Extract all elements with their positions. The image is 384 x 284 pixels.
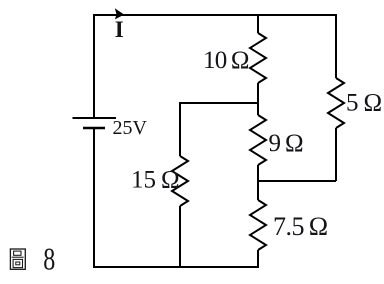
- wire left vertical upper (battery + to top): [93, 14, 95, 117]
- svg-text:15 Ω: 15 Ω: [131, 167, 180, 194]
- wire top from battery to right branch: [94, 14, 336, 16]
- current arrow I on top wire: [115, 8, 124, 19]
- wire bottom from battery to 7.5 ohm branch: [93, 266, 258, 268]
- wire 15 ohm branch top stub: [179, 102, 181, 156]
- resistor 7.5 ohm: [250, 200, 266, 250]
- wire left vertical lower (battery - to bottom): [93, 128, 95, 268]
- figure label: character tu (drawn): [10, 249, 25, 269]
- wire middle branch top stub: [257, 14, 259, 33]
- svg-text:10 Ω: 10 Ω: [203, 47, 249, 74]
- svg-text:I: I: [115, 17, 124, 42]
- resistor 15 ohm: [172, 156, 188, 206]
- resistor 9 ohm: [250, 115, 266, 165]
- wire middle branch between 9 ohm and 7.5 ohm: [257, 165, 259, 200]
- svg-text:8: 8: [43, 242, 55, 277]
- wire horizontal between middle branch and 5 ohm branch: [258, 180, 336, 182]
- wire horizontal node between 15 ohm and middle branch: [180, 102, 258, 104]
- resistor 5 ohm: [328, 78, 344, 128]
- svg-text:5 Ω: 5 Ω: [346, 90, 382, 117]
- svg-text:25V: 25V: [113, 117, 148, 139]
- wire middle branch bottom stub: [257, 250, 259, 268]
- wire right vertical top stub: [335, 14, 337, 78]
- wire middle branch between 10 ohm and 9 ohm: [257, 83, 259, 115]
- battery 25V negative short plate: [83, 127, 105, 130]
- svg-text:7.5 Ω: 7.5 Ω: [273, 212, 328, 241]
- resistor 10 ohm: [250, 33, 266, 83]
- wire 15 ohm branch bottom stub: [179, 206, 181, 268]
- svg-text:9 Ω: 9 Ω: [269, 130, 304, 157]
- wire right vertical bottom stub: [335, 128, 337, 181]
- battery 25V positive long plate: [73, 117, 117, 119]
